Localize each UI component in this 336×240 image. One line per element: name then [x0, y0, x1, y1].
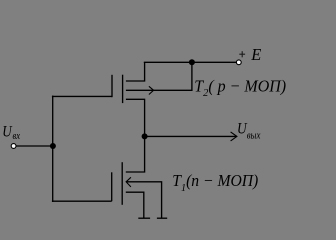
svg-text:E: E [250, 45, 261, 64]
wire: +E supply rail [144, 61, 237, 63]
wire: T1 gate lead from left rail [52, 200, 112, 202]
wire: left gate rail (vertical) [52, 96, 54, 202]
arrowhead on T1 substrate lead (points left, n-MOP) [126, 177, 131, 187]
wire: T1 source lead to ground [126, 192, 144, 218]
ground bar under T1 substrate [157, 217, 167, 219]
wire: input lead from terminal to gate rail [16, 145, 53, 147]
transistor T2 gate bar [111, 75, 113, 97]
arrowhead on output arrow (points right) [231, 132, 237, 141]
transistor T2 channel bar [122, 75, 124, 103]
wire: T2 gate lead [52, 95, 112, 97]
ground bar under T1 source [138, 217, 150, 219]
arrowhead on T2 substrate lead (points right, p-MOP) [149, 86, 154, 94]
wire: T2 source lead to +E rail [126, 62, 145, 81]
node: +E junction dot on supply rail [189, 59, 195, 65]
node: output junction dot [142, 133, 148, 139]
wire: output node down to T1 drain [126, 136, 145, 172]
label U_vx (input voltage) [2, 123, 21, 142]
wire: T2 drain lead down to output node [126, 99, 145, 136]
node: input terminal (open circle) [11, 144, 16, 149]
label T2 (p-MOP) [194, 76, 286, 99]
node: +E terminal (open circle) [236, 60, 241, 65]
wire: T1 substrate lead to ground [126, 182, 161, 218]
label plus sign of supply [239, 51, 245, 57]
label T1 (n-MOP) [172, 171, 258, 194]
node: input junction dot on gate rail [50, 143, 56, 149]
transistor T1 gate bar [111, 172, 113, 201]
wire: T2 substrate lead (from +E junction down and left to channel) [126, 62, 192, 90]
wire: output arrow line [145, 135, 237, 137]
transistor T1 channel bar [121, 162, 123, 205]
label U_vyx (output voltage) [237, 120, 261, 141]
